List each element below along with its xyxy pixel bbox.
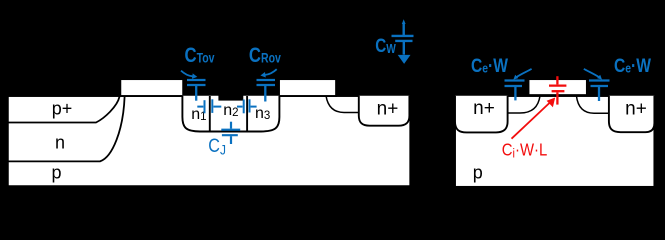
substrate rectangle <box>455 96 654 187</box>
arrowhead C_Tov <box>192 73 197 79</box>
surface ledge right of n-well <box>326 96 359 113</box>
red arrowhead <box>547 98 556 108</box>
n+ well left device <box>359 96 410 126</box>
arrowhead C_e·W left <box>513 75 518 80</box>
capacitor C_e·W left symbol <box>505 69 532 101</box>
capacitor C_W symbol <box>392 23 414 55</box>
n+ well right <box>609 96 655 132</box>
svg-text:Ce·W: Ce·W <box>471 54 508 76</box>
svg-text:n: n <box>55 133 65 153</box>
layer boundary n/p <box>8 97 125 162</box>
capacitor C_Rov symbol <box>257 69 277 101</box>
C_W ground arrow <box>398 55 411 64</box>
source extension ledge left <box>508 96 540 113</box>
gate oxide capacitor C_i (red) <box>549 76 566 104</box>
junction capacitor n2/n3 <box>237 99 257 113</box>
capacitor C_e·W right symbol <box>584 69 610 101</box>
bulk substrate rectangle <box>8 96 411 186</box>
raised electrode right (R) <box>279 79 336 96</box>
capacitor C_J symbol <box>221 122 240 144</box>
svg-text:n+: n+ <box>473 98 495 119</box>
divider n1/n2 <box>209 96 211 131</box>
arrowhead C_e·W right <box>597 75 602 80</box>
svg-text:n+: n+ <box>625 98 647 119</box>
capacitor C_Tov symbol <box>181 71 206 101</box>
C_W stem top tip <box>402 19 406 24</box>
arrowhead C_Rov <box>260 72 265 78</box>
gate rectangle <box>529 79 587 95</box>
layer boundary p+/n <box>8 97 120 123</box>
svg-text:Ce·W: Ce·W <box>614 54 651 76</box>
svg-text:Ci·W·L: Ci·W·L <box>502 140 547 160</box>
drain extension ledge right <box>576 96 609 113</box>
raised electrode left (T) <box>120 79 183 96</box>
junction capacitor n1/n2 <box>197 99 221 113</box>
svg-text:p: p <box>51 163 61 183</box>
divider n2/n3 <box>246 96 248 131</box>
n+ well left <box>455 96 508 133</box>
svg-text:p: p <box>473 163 483 183</box>
svg-text:n+: n+ <box>377 98 399 119</box>
recess notch over n2 <box>218 94 243 101</box>
n-well containing n1 n2 n3 <box>182 96 279 132</box>
red pointer arrow <box>512 102 552 139</box>
svg-text:p+: p+ <box>52 99 73 119</box>
